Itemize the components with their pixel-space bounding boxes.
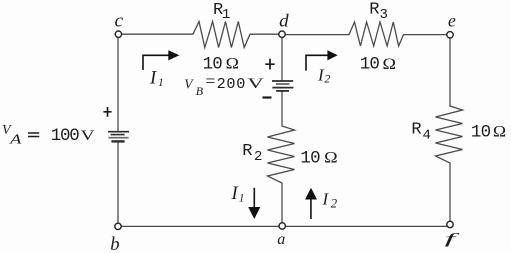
svg-text:Ω: Ω bbox=[383, 56, 397, 73]
svg-text:V: V bbox=[247, 76, 264, 92]
svg-text:1: 1 bbox=[222, 7, 230, 23]
svg-text:b: b bbox=[110, 234, 119, 253]
svg-text:10: 10 bbox=[300, 148, 320, 168]
svg-text:I: I bbox=[322, 190, 330, 209]
svg-text:R: R bbox=[369, 1, 379, 20]
svg-text:200: 200 bbox=[217, 75, 246, 93]
svg-text:V: V bbox=[184, 76, 194, 91]
svg-text:1: 1 bbox=[239, 193, 245, 205]
svg-text:R: R bbox=[411, 121, 421, 140]
svg-text:3: 3 bbox=[380, 7, 388, 23]
svg-text:4: 4 bbox=[423, 128, 431, 144]
svg-text:R: R bbox=[242, 142, 252, 161]
svg-text:A: A bbox=[9, 133, 22, 148]
svg-text:2: 2 bbox=[331, 195, 338, 210]
svg-text:f: f bbox=[445, 231, 460, 247]
svg-text:10: 10 bbox=[203, 54, 223, 74]
svg-text:10: 10 bbox=[471, 123, 491, 143]
svg-text:1: 1 bbox=[158, 77, 164, 89]
svg-text:Ω: Ω bbox=[324, 149, 338, 166]
svg-text:I: I bbox=[231, 184, 239, 204]
svg-text:I: I bbox=[149, 68, 157, 88]
svg-text:Ω: Ω bbox=[226, 55, 239, 72]
svg-text:B: B bbox=[196, 84, 204, 98]
svg-text:2: 2 bbox=[254, 149, 262, 165]
svg-text:d: d bbox=[279, 11, 290, 31]
svg-text:V: V bbox=[81, 128, 96, 144]
svg-text:e: e bbox=[448, 10, 456, 30]
svg-text:a: a bbox=[277, 231, 285, 248]
svg-text:100: 100 bbox=[51, 126, 79, 146]
svg-text:c: c bbox=[115, 11, 124, 32]
svg-text:2: 2 bbox=[324, 72, 330, 86]
svg-text:10: 10 bbox=[360, 55, 380, 75]
svg-text:Ω: Ω bbox=[493, 124, 506, 141]
